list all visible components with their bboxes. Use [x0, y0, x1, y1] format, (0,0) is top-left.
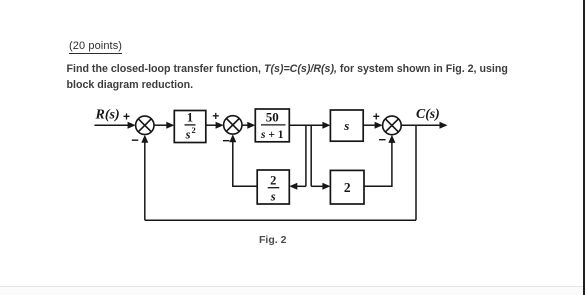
arrowhead into G3: [322, 122, 330, 129]
wire outer feedback riser to sum1: [144, 142, 146, 221]
summing junction S1: [136, 116, 154, 134]
summing junction S3: [383, 116, 402, 135]
block G1 1/s^2: [174, 110, 206, 142]
paragraph: [67, 61, 527, 93]
wire sum2 to G2: [242, 124, 249, 126]
block H1 2/s: [257, 170, 289, 204]
wire sum3 to C(s) output: [401, 124, 446, 126]
svg-text:+: +: [373, 110, 380, 124]
svg-text:1: 1: [187, 110, 193, 124]
svg-text:50: 50: [266, 109, 279, 124]
arrowhead into G2: [247, 122, 255, 129]
arrowhead into H1: [289, 183, 297, 190]
node takeoff B vertical to H2 row: [310, 125, 312, 186]
wire outer feedback bottom: [145, 219, 416, 221]
heading (20 points): [69, 40, 122, 54]
arrowhead into G1: [166, 122, 174, 129]
arrowhead output C(s): [440, 122, 448, 129]
block H2 2: [330, 170, 364, 204]
node takeoff C outer feedback down: [415, 125, 417, 220]
arrowhead into sum1: [128, 122, 136, 129]
svg-text:s + 1: s + 1: [260, 129, 284, 141]
arrowhead H1 to sum2 bottom: [229, 134, 236, 142]
svg-text:2: 2: [191, 125, 195, 135]
arrowhead outer feedback to sum1 bottom: [141, 135, 148, 143]
page bottom area tint: [0, 287, 584, 295]
page right dark edge: [583, 0, 585, 295]
wire input R(s): [95, 124, 130, 126]
fig caption Fig. 2: [259, 234, 286, 246]
svg-text:2: 2: [270, 174, 276, 188]
wire takeoff B to H2 input: [311, 185, 324, 187]
svg-text:s: s: [270, 189, 276, 203]
svg-text:−: −: [379, 132, 387, 147]
page bottom hairline: [0, 286, 584, 287]
arrowhead H2 to sum3 bottom: [388, 135, 395, 143]
svg-text:+: +: [212, 109, 219, 123]
svg-text:C(s): C(s): [416, 106, 440, 122]
svg-text:s: s: [343, 118, 349, 133]
arrowhead into H2: [322, 183, 330, 190]
svg-text:+: +: [123, 110, 130, 124]
wire sum1 to G1: [154, 124, 168, 126]
svg-text:s: s: [185, 128, 191, 142]
wire G1 to sum2: [206, 124, 217, 126]
wire G2 to G3: [289, 124, 324, 126]
svg-text:2: 2: [344, 180, 351, 195]
node takeoff A vertical to H1 row: [305, 125, 307, 186]
wire H1 output to sum2: [233, 141, 257, 186]
wire takeoff A to H1 input: [296, 185, 306, 187]
block G2 50/(s+1): [255, 109, 289, 142]
wire G3 to sum3: [363, 124, 376, 126]
summing junction S2: [224, 116, 242, 134]
svg-text:−: −: [131, 133, 139, 148]
wire H2 output to sum3: [364, 142, 392, 187]
arrowhead into sum2: [216, 122, 224, 129]
arrowhead into sum3: [375, 122, 383, 129]
svg-text:R(s): R(s): [95, 108, 120, 123]
svg-text:−: −: [222, 133, 230, 148]
block G3 s: [330, 110, 363, 141]
